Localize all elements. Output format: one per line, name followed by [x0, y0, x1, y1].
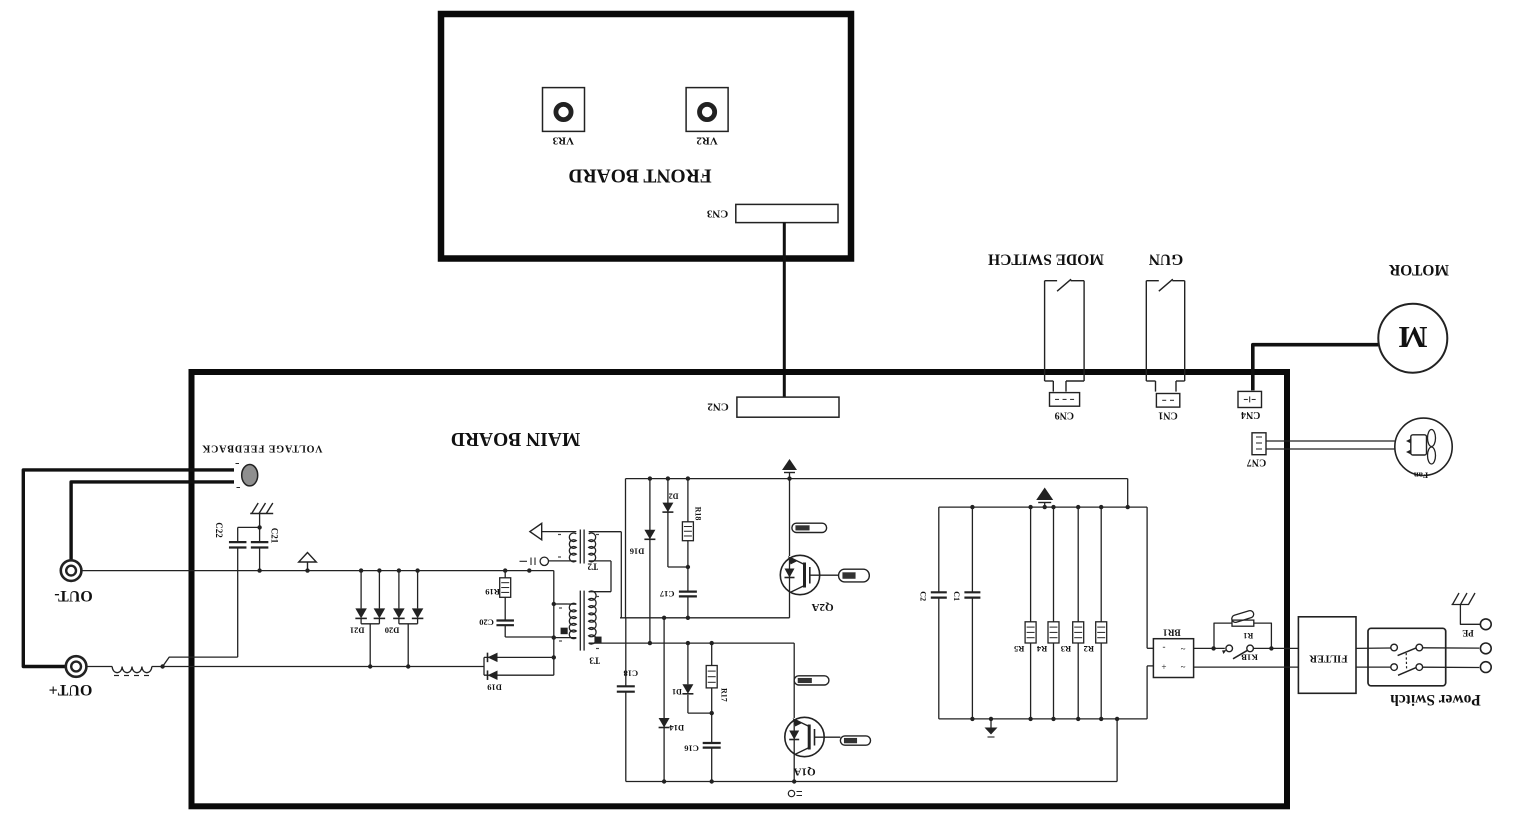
svg-text:VOLTAGE FEEDBACK: VOLTAGE FEEDBACK: [202, 442, 323, 453]
svg-text:R1: R1: [1243, 631, 1253, 640]
svg-text:CN2: CN2: [707, 400, 729, 412]
svg-text:D19: D19: [487, 683, 502, 693]
svg-text:GUN: GUN: [1149, 251, 1183, 268]
svg-text:MAIN BOARD: MAIN BOARD: [451, 428, 580, 449]
svg-text:-: -: [1163, 643, 1166, 653]
svg-text:R5: R5: [1014, 644, 1024, 654]
svg-text:D14: D14: [669, 723, 684, 733]
svg-text:BR1: BR1: [1163, 627, 1181, 637]
svg-text:C2: C2: [919, 591, 928, 601]
svg-text:C16: C16: [684, 744, 699, 754]
svg-text:R3: R3: [1061, 644, 1071, 654]
svg-text:~: ~: [1180, 644, 1185, 654]
svg-text:Power Switch: Power Switch: [1390, 691, 1481, 708]
svg-text:R2: R2: [1084, 644, 1094, 654]
svg-text:D2: D2: [669, 492, 679, 501]
svg-text:C17: C17: [659, 589, 674, 599]
svg-text:CN9: CN9: [1055, 409, 1074, 420]
svg-text:~: ~: [1180, 662, 1185, 672]
svg-text:OUT+: OUT+: [49, 681, 93, 698]
svg-text:D1: D1: [672, 687, 682, 696]
svg-text:D16: D16: [630, 547, 645, 557]
svg-text:D20: D20: [385, 625, 400, 635]
svg-text:FRONT BOARD: FRONT BOARD: [568, 165, 711, 186]
svg-text:Q2A: Q2A: [812, 601, 834, 613]
svg-text:MOTOR: MOTOR: [1388, 261, 1449, 278]
svg-text:CN4: CN4: [1241, 409, 1260, 420]
svg-text:MODE SWITCH: MODE SWITCH: [988, 251, 1104, 268]
svg-text:FILTER: FILTER: [1309, 652, 1348, 663]
svg-text:R18: R18: [694, 507, 703, 521]
svg-text:R19: R19: [485, 587, 500, 597]
svg-text:C20: C20: [479, 618, 494, 628]
svg-text:VR3: VR3: [552, 134, 574, 146]
svg-text:T3: T3: [589, 656, 600, 666]
svg-text:CN1: CN1: [1158, 409, 1177, 420]
svg-text:K1B: K1B: [1241, 653, 1258, 663]
svg-text:C18: C18: [623, 669, 638, 679]
svg-text:OUT-: OUT-: [54, 587, 93, 604]
svg-text:D21: D21: [350, 625, 365, 635]
svg-text:+: +: [1161, 662, 1166, 672]
svg-text:PE: PE: [1462, 628, 1474, 638]
svg-text:CN3: CN3: [706, 208, 728, 220]
svg-text:R4: R4: [1036, 644, 1047, 654]
svg-text:C21: C21: [270, 528, 280, 544]
svg-text:CN7: CN7: [1247, 457, 1266, 468]
svg-text:T2: T2: [587, 562, 598, 572]
svg-text:Fan: Fan: [1414, 471, 1428, 481]
svg-text:R17: R17: [719, 688, 728, 702]
svg-text:M: M: [1398, 320, 1427, 355]
svg-text:Q1A: Q1A: [794, 766, 816, 778]
svg-text:C22: C22: [214, 522, 224, 538]
svg-text:VR2: VR2: [696, 134, 718, 146]
svg-text:C1: C1: [952, 591, 961, 601]
